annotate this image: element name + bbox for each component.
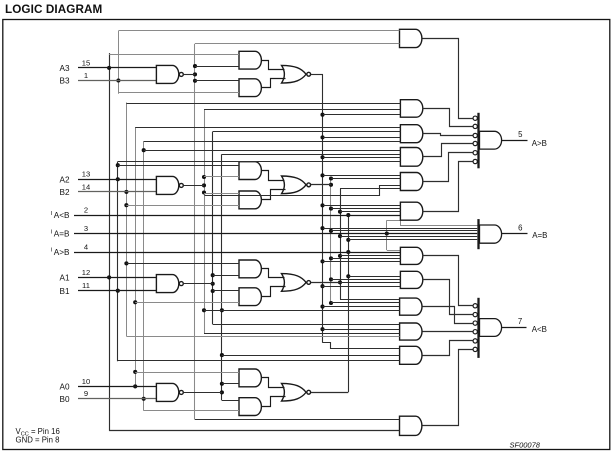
- svg-text:5: 5: [518, 130, 523, 139]
- svg-text:6: 6: [518, 224, 522, 233]
- svg-text:B3: B3: [59, 77, 69, 86]
- svg-text:10: 10: [82, 377, 90, 386]
- svg-text:1: 1: [84, 71, 88, 80]
- svg-text:7: 7: [518, 317, 522, 326]
- svg-text:2: 2: [84, 206, 88, 215]
- svg-text:SF00078: SF00078: [510, 441, 541, 450]
- svg-text:A3: A3: [59, 64, 69, 73]
- svg-text:13: 13: [82, 170, 90, 179]
- svg-text:A0: A0: [59, 383, 69, 392]
- svg-text:15: 15: [82, 58, 90, 67]
- svg-text:A2: A2: [59, 175, 69, 184]
- svg-text:11: 11: [82, 281, 90, 290]
- svg-text:B2: B2: [59, 188, 69, 197]
- svg-text:A>B: A>B: [54, 248, 70, 257]
- svg-text:A1: A1: [59, 274, 69, 283]
- svg-text:LOGIC DIAGRAM: LOGIC DIAGRAM: [5, 3, 102, 16]
- svg-text:3: 3: [84, 224, 88, 233]
- svg-text:14: 14: [82, 182, 90, 191]
- svg-text:A<B: A<B: [54, 211, 70, 220]
- svg-text:A>B: A>B: [532, 139, 547, 148]
- svg-text:4: 4: [84, 242, 88, 251]
- svg-text:A=B: A=B: [54, 230, 70, 239]
- svg-text:B0: B0: [59, 395, 69, 404]
- svg-text:A=B: A=B: [532, 231, 547, 240]
- svg-text:GND = Pin 8: GND = Pin 8: [16, 436, 60, 445]
- svg-text:9: 9: [84, 389, 88, 398]
- svg-text:B1: B1: [59, 287, 69, 296]
- svg-text:12: 12: [82, 268, 90, 277]
- svg-text:A<B: A<B: [532, 325, 547, 334]
